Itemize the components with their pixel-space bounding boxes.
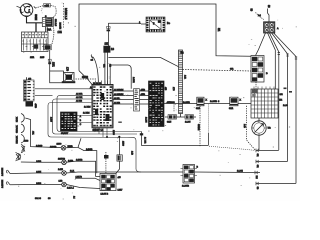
svg-text:14GR: 14GR bbox=[132, 77, 134, 83]
dashed wire right of K1 bbox=[76, 78, 97, 80]
svg-text:14.05 B: 14.05 B bbox=[101, 194, 109, 196]
connector marks on wire bbox=[48, 59, 51, 64]
ignition switch SW1 bbox=[20, 4, 33, 17]
wire row2 long bbox=[10, 172, 62, 175]
svg-text:30A 2.5: 30A 2.5 bbox=[54, 19, 57, 27]
svg-text:1417: 1417 bbox=[118, 190, 124, 192]
svg-text:14.052: 14.052 bbox=[183, 102, 190, 104]
connector marks on fan verticals bbox=[278, 53, 298, 60]
svg-text:GR0M: GR0M bbox=[197, 124, 199, 130]
wire L1 to flasher bbox=[66, 161, 100, 176]
svg-text:14.05: 14.05 bbox=[145, 117, 147, 123]
W1 diagonal into module U1 bbox=[79, 71, 92, 85]
connector box on y117 left bbox=[168, 115, 177, 119]
svg-text:1430: 1430 bbox=[36, 161, 42, 163]
horn arcs H1 bbox=[21, 114, 25, 153]
wire L3 to flasher bottom bbox=[66, 185, 100, 189]
svg-text:4/5B: 4/5B bbox=[141, 89, 146, 91]
svg-text:141B: 141B bbox=[68, 161, 74, 163]
svg-text:4/5B: 4/5B bbox=[141, 94, 146, 96]
ignition switch right tick bbox=[34, 6, 36, 8]
wire switch down bbox=[27, 16, 43, 23]
svg-text:30A: 30A bbox=[47, 29, 52, 32]
wire arc to lamp row0 bbox=[25, 118, 61, 148]
svg-text:1430B: 1430B bbox=[36, 145, 43, 147]
svg-text:1800: 1800 bbox=[112, 130, 114, 136]
loop wire w-b bbox=[53, 99, 138, 134]
connector ticks on vertical bbox=[107, 27, 111, 32]
label +30 bbox=[44, 4, 51, 8]
svg-text:1S: 1S bbox=[111, 48, 114, 51]
strip B (hatched bus) bbox=[179, 50, 183, 114]
wire C3 to flasher bbox=[116, 161, 120, 173]
U1-U2 link wires bbox=[79, 116, 92, 123]
svg-text:KNACK: KNACK bbox=[16, 135, 19, 143]
wire row3 bbox=[10, 184, 62, 186]
dashed wire from label to fuse block bbox=[51, 5, 57, 17]
svg-text:NM: NM bbox=[255, 176, 257, 179]
svg-text:15/1: 15/1 bbox=[52, 62, 55, 67]
branch at y71 to relay K1 bbox=[50, 71, 64, 73]
svg-text:1800B: 1800B bbox=[50, 146, 57, 148]
relay K1 bbox=[62, 73, 76, 83]
svg-text:14B: 14B bbox=[243, 124, 245, 128]
wire S2 down and right bbox=[50, 50, 62, 83]
svg-text:4/8B: 4/8B bbox=[34, 104, 36, 109]
svg-text:44 OR: 44 OR bbox=[76, 97, 83, 99]
U1 top pin stubs bbox=[95, 81, 110, 85]
RB1 bottom dashes to grid bbox=[255, 82, 257, 89]
M1 top link bbox=[258, 118, 260, 121]
lamp L3 bbox=[62, 182, 67, 187]
dotted from corner to conn1 bbox=[209, 146, 255, 150]
R1 left stub bbox=[141, 23, 146, 25]
svg-text:14A: 14A bbox=[184, 75, 187, 79]
svg-text:BA/GN 1.5: BA/GN 1.5 bbox=[64, 8, 67, 20]
svg-text:GR: GR bbox=[230, 68, 234, 70]
conn4 bbox=[256, 182, 262, 186]
junction connector S2 bbox=[44, 45, 51, 50]
connector C3 on wire bbox=[117, 155, 122, 161]
svg-text:1418GN: 1418GN bbox=[2, 179, 4, 188]
device E1 bbox=[104, 46, 110, 52]
conn1 bbox=[256, 149, 262, 153]
svg-text:14.0E: 14.0E bbox=[237, 171, 243, 173]
stub strip B bottom bbox=[180, 114, 182, 118]
svg-text:12Z: 12Z bbox=[105, 44, 110, 46]
left connector row2 bbox=[7, 170, 10, 174]
svg-text:GR: GR bbox=[103, 64, 105, 68]
long routed wire W1 top border bbox=[79, 4, 251, 71]
svg-text:21 20 12: 21 20 12 bbox=[93, 83, 102, 85]
strip A (black column) bbox=[149, 81, 165, 127]
svg-text:SNACK: SNACK bbox=[16, 125, 19, 133]
svg-text:44 GR0M: 44 GR0M bbox=[114, 89, 124, 91]
relay block RB1 right bbox=[251, 56, 264, 83]
svg-text:1417.4: 1417.4 bbox=[67, 188, 74, 190]
vertical wire to device E1 bbox=[107, 23, 109, 46]
block bottom stubs bbox=[46, 27, 48, 33]
module U2 (black) bbox=[61, 112, 82, 135]
component D1 bottom-center bbox=[181, 165, 198, 184]
wire module top to strip A bbox=[110, 65, 131, 89]
svg-text:1430GN: 1430GN bbox=[2, 167, 4, 176]
conn1 right wire up bbox=[262, 149, 279, 151]
svg-text:17E: 17E bbox=[58, 31, 63, 34]
junction dot A bbox=[106, 136, 108, 138]
svg-text:07E203: 07E203 bbox=[167, 102, 175, 104]
svg-text:1435B: 1435B bbox=[76, 160, 83, 162]
svg-text:30GN: 30GN bbox=[34, 14, 36, 20]
svg-text:1415: 1415 bbox=[58, 169, 64, 171]
svg-text:14.05B: 14.05B bbox=[182, 186, 189, 188]
wire row2 right long to conn3 bbox=[66, 172, 183, 173]
svg-text:14 NM: 14 NM bbox=[83, 113, 90, 115]
svg-text:1417B: 1417B bbox=[76, 177, 83, 179]
dashed wire strip B to relay block bbox=[183, 70, 252, 72]
M1 bottom wire bbox=[258, 135, 260, 150]
terminal tick bbox=[140, 133, 143, 135]
arcs with x left row1 bbox=[16, 153, 21, 161]
stub wire 1417B bbox=[75, 178, 100, 180]
stub below wire bbox=[173, 105, 175, 112]
svg-text:1435: 1435 bbox=[36, 172, 42, 174]
module U1 (connector w/ text) bbox=[92, 85, 113, 128]
dashed drop from X2 bbox=[247, 106, 256, 150]
gauge circle M1 bbox=[252, 121, 266, 135]
vertical x208 up bbox=[207, 133, 209, 145]
svg-text:44 SB: 44 SB bbox=[76, 101, 82, 103]
small relay boxes X2 bbox=[230, 97, 238, 106]
wire from junction right y57 bbox=[108, 57, 179, 67]
dashed curve block to junction S2 bbox=[52, 28, 54, 45]
connector box on y117 right bbox=[185, 115, 194, 119]
P1 out wires bbox=[35, 89, 92, 96]
svg-text:BA/GN: BA/GN bbox=[59, 23, 62, 30]
left dashes to J1 bbox=[256, 13, 264, 20]
svg-text:14B: 14B bbox=[59, 180, 63, 182]
fusebox FB1 bbox=[22, 32, 49, 52]
top-right junction box J1 bbox=[264, 22, 275, 33]
wire drop to fusebox bbox=[35, 23, 37, 32]
svg-text:KICK: KICK bbox=[17, 116, 19, 122]
svg-text:1800: 1800 bbox=[57, 143, 63, 145]
J1 top wire bbox=[268, 13, 270, 22]
svg-text:1418: 1418 bbox=[36, 183, 42, 185]
left connector row3 bbox=[7, 182, 10, 185]
loop wire w-c bbox=[48, 103, 141, 173]
wire run to conn area bbox=[142, 136, 209, 146]
svg-text:44 GR: 44 GR bbox=[76, 94, 83, 96]
svg-text:44 GR0M: 44 GR0M bbox=[114, 94, 124, 96]
svg-text:44 GL: 44 GL bbox=[114, 98, 121, 100]
connector C2 curve bbox=[93, 57, 99, 85]
svg-text:14 NM: 14 NM bbox=[84, 107, 91, 109]
fusebox output wire bbox=[45, 46, 48, 48]
long wire y103.5 bbox=[164, 103, 197, 105]
svg-text:170: 170 bbox=[66, 67, 69, 72]
instrument grid G1 bbox=[251, 89, 278, 118]
svg-text:44 SB: 44 SB bbox=[114, 102, 120, 104]
conn4 right wire bbox=[262, 182, 296, 184]
ignition switch left stub bbox=[17, 6, 21, 8]
lamp L1 bbox=[62, 160, 67, 165]
dashed drop from X1 bbox=[199, 106, 201, 147]
junction dot B bbox=[118, 136, 120, 138]
svg-text:14.05B: 14.05B bbox=[210, 101, 217, 103]
svg-text:10/50B: 10/50B bbox=[58, 158, 65, 160]
fan wires from J1 bbox=[256, 33, 266, 56]
lamp L0 bbox=[61, 146, 66, 151]
wire L0 to flasher bbox=[78, 147, 97, 173]
wires T1 to strip A bbox=[140, 91, 149, 104]
G1 top pin stubs bbox=[254, 87, 274, 90]
conn2 right wire bbox=[262, 160, 288, 162]
lamp L2 bbox=[62, 171, 67, 176]
dashed wire x106 bbox=[105, 152, 107, 173]
U1 bottom pin stubs bbox=[95, 128, 107, 137]
wire R1 to vertical bbox=[108, 22, 141, 24]
svg-text:14.05: 14.05 bbox=[185, 122, 191, 124]
wire L0 right bbox=[66, 138, 81, 148]
dashed column line bbox=[63, 3, 65, 28]
left column connector P1 bbox=[24, 77, 35, 101]
svg-text:+30: +30 bbox=[44, 4, 49, 8]
P1 bottom blob bbox=[26, 101, 34, 106]
svg-text:14 OR: 14 OR bbox=[144, 137, 146, 144]
E1 down wires bbox=[105, 52, 108, 84]
wire loop-a end down bbox=[141, 132, 143, 136]
connector on dashed bbox=[104, 155, 109, 159]
dashed wire from switch to label +30 bbox=[36, 6, 44, 8]
small relay boxes X1 bbox=[197, 97, 204, 106]
wires U1 right to terminal strip T1 bbox=[113, 91, 134, 104]
loop wires left of U1: w-a bbox=[57, 95, 142, 131]
conn3 bbox=[255, 171, 260, 175]
svg-text:1500: 1500 bbox=[121, 141, 123, 147]
conn2 bbox=[256, 160, 262, 164]
svg-text:1439: 1439 bbox=[50, 117, 52, 123]
relay R1 (hatched) bbox=[146, 17, 165, 32]
wire row1 bbox=[21, 161, 62, 163]
dotted drop x210 bbox=[207, 105, 209, 134]
svg-text:SVART: SVART bbox=[61, 132, 69, 135]
wire y117 bbox=[165, 116, 196, 118]
svg-text:14B: 14B bbox=[130, 151, 132, 155]
flasher unit F1 bbox=[100, 173, 116, 190]
scan noise bbox=[61, 2, 64, 5]
svg-text:1430B: 1430B bbox=[86, 149, 93, 151]
wire down x120.5 bbox=[119, 137, 121, 155]
terminal strip T1 bbox=[134, 89, 140, 111]
connector block C1 bbox=[42, 18, 53, 27]
svg-text:304 G: 304 G bbox=[35, 198, 41, 200]
